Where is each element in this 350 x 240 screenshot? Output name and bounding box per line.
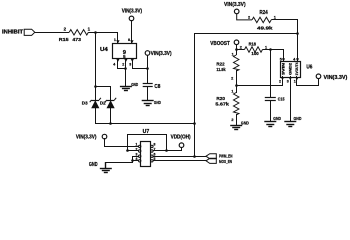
wire stub U7 pin4 [132, 160, 138, 162]
svg-text:2: 2 [231, 77, 233, 81]
svg-text:11.9k: 11.9k [216, 67, 225, 73]
svg-text:1VOUT4: 1VOUT4 [295, 62, 299, 75]
wire U6 pin3 down to gnd [290, 76, 292, 122]
wire U7 pin4(right) to MOS_EN [153, 160, 206, 162]
wire up to VIN circle [318, 78, 320, 86]
wire gnd rail to U7 pins 3-4 [106, 162, 133, 164]
node junction U4 gnd pins [124, 67, 127, 70]
svg-text:4: 4 [136, 157, 138, 161]
svg-text:GND: GND [154, 100, 161, 106]
node junction D2 bottom [109, 122, 112, 125]
node junction R15/inhibit net [94, 31, 97, 34]
node junction wrap right [165, 149, 168, 152]
resistor R20 (vertical) [234, 93, 239, 116]
wire corner down to U6 pin4 [297, 19, 299, 62]
wire VIN top to U4 pin [131, 20, 133, 44]
svg-text:GND: GND [273, 116, 281, 122]
svg-text:6: 6 [154, 153, 156, 157]
power port VBOOST circle [234, 40, 239, 45]
svg-text:1: 1 [232, 52, 234, 56]
svg-text:C15: C15 [278, 97, 285, 103]
wire corner down to U4 pin [117, 32, 119, 44]
svg-text:2: 2 [279, 79, 281, 83]
power port VIN(3.3V) right circle [316, 74, 321, 79]
svg-text:2: 2 [248, 16, 250, 20]
wire stub U7 pin2 left [127, 150, 138, 152]
svg-text:473: 473 [72, 37, 81, 43]
resistor R24 [252, 17, 271, 22]
capacitor C8 [143, 84, 153, 87]
diode D3 (zener) [90, 98, 101, 124]
pin arrow U4 bottom-left [116, 59, 119, 62]
wire C15 to gnd [270, 100, 272, 122]
pin numbers U7 left [136, 143, 138, 161]
node junction C15 tap [269, 48, 272, 51]
svg-text:VDD(OH): VDD(OH) [171, 134, 191, 140]
U7 right pin bubbles [151, 145, 153, 162]
wire R22 bottom lead [236, 70, 238, 86]
ground R20 [230, 126, 242, 130]
power port VDD(OH) circle [179, 143, 184, 148]
IC U6 body [281, 62, 301, 78]
pin arrow U6 bottom pin2 [281, 77, 284, 80]
wire R18 left lead [236, 49, 244, 51]
svg-text:5: 5 [280, 57, 282, 61]
wire R24 to corner [271, 19, 297, 21]
svg-text:C8: C8 [154, 84, 160, 90]
wire U6 pin1 down [296, 76, 298, 86]
node junction wrap/pin2 [126, 149, 129, 152]
svg-text:R15: R15 [59, 37, 69, 43]
wire U7 right pin2 net [153, 150, 181, 152]
wire stub U7 pin3 [132, 156, 138, 158]
svg-text:D2: D2 [100, 101, 106, 106]
node junction rail/vertical [193, 122, 196, 125]
svg-text:8: 8 [128, 38, 130, 42]
svg-text:R20: R20 [216, 96, 225, 102]
svg-text:4: 4 [113, 62, 115, 66]
wire wrap top [127, 134, 166, 136]
connector INHIBIT (off-page, points right) [24, 29, 35, 35]
wire bottom rail diodes to vertical [95, 123, 194, 125]
pin arrow U4 top-left [116, 40, 119, 43]
IC U4 body [113, 44, 137, 59]
ground C8 [142, 101, 154, 106]
svg-text:D3: D3 [82, 101, 88, 106]
wire up to U7 pin3 [132, 156, 134, 163]
wire U6 pin1 right [297, 85, 319, 87]
node junction R22/R20/U6pin2 [235, 84, 238, 87]
wire up to U6 pin2 [282, 76, 284, 86]
wire D3 top to D2 top [95, 86, 110, 88]
IC U7 body [141, 142, 151, 167]
wire R15 to U4 corner [88, 32, 118, 34]
svg-text:3VIN: 3VIN [282, 62, 286, 75]
wire R20 bottom lead [236, 114, 238, 126]
wire U4 pin3 down [132, 58, 134, 69]
wire R18 to U6 pin5 corner [263, 49, 284, 51]
node junction C8 net [146, 67, 149, 70]
svg-text:1: 1 [136, 143, 138, 147]
wire U4 pin4 down [117, 58, 119, 69]
ground C15 [264, 122, 276, 127]
wire horizontal boost top [194, 33, 298, 35]
svg-text:GND: GND [241, 120, 249, 126]
resistor R18 [245, 47, 263, 52]
wire VIN to R24 [237, 14, 252, 20]
wire VIN bottom down [104, 138, 106, 147]
pin arrow U6 bottom pin1 [295, 77, 298, 80]
svg-text:3: 3 [129, 62, 131, 66]
svg-text:INHIBIT: INHIBIT [2, 29, 23, 35]
ground U4 [120, 87, 132, 91]
svg-text:GND: GND [294, 116, 302, 122]
wire wrap down right [166, 134, 168, 151]
svg-text:VIN(3.3V): VIN(3.3V) [76, 135, 97, 141]
svg-text:2: 2 [231, 118, 233, 122]
svg-text:1: 1 [294, 79, 296, 83]
node junction U7 pin4 tie [131, 159, 134, 162]
diode D2 (zener) [105, 98, 116, 124]
pin arrow U6 top pin5 [282, 58, 285, 61]
svg-text:5.67k: 5.67k [215, 102, 229, 108]
wire VDD stem [181, 147, 183, 151]
svg-text:1: 1 [231, 89, 233, 93]
capacitor C15 [265, 98, 276, 101]
pin arrow U6 top pin4 [296, 58, 299, 61]
svg-text:1: 1 [265, 46, 267, 50]
svg-text:GND: GND [131, 82, 138, 88]
power port VIN(3.3V) top-mid circle [234, 9, 239, 14]
U7 left pin bubbles [139, 145, 141, 162]
wire feedback to U6 pin2 [236, 85, 282, 87]
node junction VBOOST/R18 [235, 48, 238, 51]
pin arrow U4 bottom-right [131, 59, 134, 62]
pin numbers U7 right [154, 143, 156, 161]
svg-text:3: 3 [287, 79, 289, 83]
wire U7 pin2 wrap up [127, 134, 129, 151]
pin arrow U6 bottom pin3 [289, 77, 292, 80]
power port VIN(3.3V) top-left circle [129, 16, 134, 21]
resistor R15 [69, 30, 88, 35]
svg-text:U6: U6 [306, 64, 312, 70]
node junction diode top link [94, 85, 97, 88]
node junction boost top [296, 32, 299, 35]
wire D2 top lead [110, 86, 112, 101]
connector MOS_EN [206, 158, 216, 163]
wire inhibit net down to D3 [95, 32, 97, 101]
power port VIN(3.3V) mid circle [145, 51, 150, 56]
wire VIN mid down to C8 [147, 55, 149, 84]
svg-text:VBOOST: VBOOST [210, 41, 230, 47]
svg-text:U4: U4 [100, 47, 108, 53]
svg-text:VIN(3.3V): VIN(3.3V) [324, 75, 348, 81]
pin arrow U4 bottom-middle [124, 59, 127, 62]
wire U4 pin2 down to ground [125, 58, 127, 87]
svg-text:R22: R22 [216, 62, 224, 68]
svg-text:100: 100 [251, 51, 259, 57]
svg-text:VIN(3.3V): VIN(3.3V) [224, 2, 246, 8]
wire U4 pin4 to pin2 join [118, 68, 126, 70]
wire U4 pin3 to C8 net [132, 68, 147, 70]
svg-text:VIN(3.3V): VIN(3.3V) [151, 51, 172, 57]
svg-text:4: 4 [293, 57, 295, 61]
resistor R22 (vertical) [234, 55, 239, 71]
svg-text:GND2: GND2 [289, 63, 293, 75]
svg-text:R24: R24 [260, 10, 268, 16]
wire down to U6 pin5 [283, 49, 285, 62]
svg-text:1: 1 [114, 38, 116, 42]
svg-text:8: 8 [154, 143, 156, 147]
ground bottom-left [100, 162, 112, 173]
wire C15 top tap down [270, 49, 272, 98]
ground U6 pin3 [284, 122, 296, 127]
svg-text:MOS_EN: MOS_EN [219, 159, 232, 165]
svg-text:GND: GND [89, 162, 98, 168]
svg-text:3: 3 [136, 153, 138, 157]
wire C8 to ground [147, 86, 149, 101]
wire U7 pin3(right) to PWM_EN [153, 156, 206, 158]
wire INHIBIT to R15 [35, 32, 69, 34]
connector PWM_EN [206, 154, 216, 159]
wire VIN bottom to U7 pin1 [104, 146, 138, 148]
wire long vertical boost net [194, 33, 196, 157]
svg-text:2: 2 [122, 62, 124, 66]
svg-text:2: 2 [240, 46, 242, 50]
wire R20 top lead [236, 85, 238, 93]
svg-text:R18: R18 [249, 41, 257, 47]
wire VBOOST stem down [236, 44, 238, 55]
pin arrow U4 top-right [130, 40, 133, 43]
node junction rail to PWM net [193, 155, 196, 158]
svg-text:PWM_EN: PWM_EN [219, 154, 233, 160]
power port VIN(3.3V) bottom-left circle [102, 134, 107, 139]
svg-text:VIN(3.3V): VIN(3.3V) [122, 9, 143, 15]
svg-text:49.9k: 49.9k [257, 25, 273, 31]
